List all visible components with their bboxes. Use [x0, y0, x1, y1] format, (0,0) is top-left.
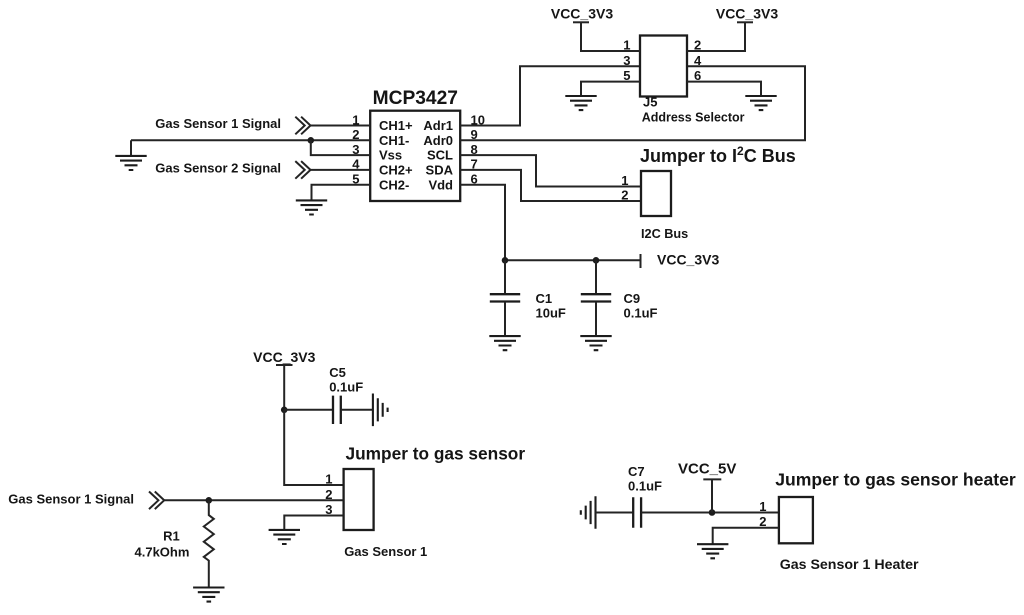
- svg-text:3: 3: [623, 53, 630, 68]
- svg-text:CH1-: CH1-: [379, 133, 409, 148]
- svg-text:VCC_3V3: VCC_3V3: [551, 6, 613, 22]
- pin number 2 of I2C Bus: [621, 187, 628, 202]
- pin number 7: [471, 157, 478, 172]
- svg-text:0.1uF: 0.1uF: [329, 380, 363, 395]
- svg-text:R1: R1: [163, 529, 180, 544]
- wire pin8 SCL to I2C pin1: [460, 155, 641, 186]
- junction on CH1-: [308, 137, 315, 144]
- resistor R1: [204, 500, 214, 587]
- wire C7 to heater pin1: [641, 512, 779, 514]
- reference label C5: [329, 365, 346, 380]
- svg-text:1: 1: [621, 173, 628, 188]
- wire C5 to ground: [341, 409, 373, 411]
- wire pin7 SDA to I2C pin2: [460, 170, 641, 201]
- capacitor C9: [581, 260, 611, 336]
- value label 0.1uF: [624, 306, 658, 321]
- value label Gas Sensor 1: [344, 544, 427, 559]
- svg-text:4: 4: [694, 53, 702, 68]
- pin number 8: [471, 142, 478, 157]
- svg-text:Vss: Vss: [379, 148, 402, 163]
- wire ground to C7: [596, 512, 634, 514]
- net label VCC_3V3 rail: [657, 252, 719, 268]
- svg-text:Address Selector: Address Selector: [642, 110, 745, 124]
- pin number 9: [471, 127, 478, 142]
- junction at C9: [593, 257, 600, 264]
- wire CH1- to ground: [130, 140, 132, 156]
- wire VCC stem to junction: [283, 365, 285, 410]
- wire VCC junction down to Gas Sensor 1 pin1: [284, 410, 343, 485]
- pin number 4: [352, 157, 360, 172]
- wire pin6 Vdd down to decoupling rail: [460, 185, 505, 261]
- pin number 1: [352, 112, 359, 127]
- svg-text:CH2-: CH2-: [379, 177, 409, 192]
- junction at R1: [206, 497, 213, 504]
- svg-text:SCL: SCL: [427, 148, 453, 163]
- pin number 1 of I2C Bus: [621, 173, 628, 188]
- svg-text:Vdd: Vdd: [428, 177, 453, 192]
- pin label CH1-: [379, 133, 409, 148]
- pin label SCL: [427, 148, 453, 163]
- pin number 2: [352, 127, 359, 142]
- capacitor C7: [633, 497, 641, 527]
- pin number 3 of Gas Sensor 1: [325, 502, 332, 517]
- wire pin9 Adr0 to J5 pin4: [460, 66, 805, 140]
- annotation Jumper to gas sensor heater: [775, 469, 1016, 489]
- node Gas Sensor 1 Signal label: [155, 116, 281, 131]
- wire pin4 CH2+: [310, 169, 371, 171]
- svg-text:1: 1: [759, 499, 766, 514]
- svg-text:Gas Sensor 1 Signal: Gas Sensor 1 Signal: [155, 116, 281, 131]
- value label 0.1uF C5: [329, 380, 363, 395]
- pin label Vdd: [428, 177, 453, 192]
- node Gas Sensor 2 Signal label: [155, 161, 281, 176]
- svg-text:10uF: 10uF: [536, 306, 566, 321]
- junction at C1: [502, 257, 509, 264]
- value label Address Selector: [642, 110, 745, 124]
- reference label R1: [163, 529, 180, 544]
- wire junction to C5: [284, 409, 333, 411]
- connector J5 body: [640, 36, 687, 97]
- svg-text:4.7kOhm: 4.7kOhm: [135, 544, 190, 559]
- svg-text:0.1uF: 0.1uF: [624, 306, 658, 321]
- ground at CH1-: [115, 156, 146, 170]
- annotation Jumper to gas sensor: [346, 444, 526, 464]
- pin label CH2-: [379, 177, 409, 192]
- junction at VCC_5V tap: [709, 509, 716, 516]
- wire heater pin2 to ground: [713, 528, 779, 545]
- pin label Adr0: [423, 133, 453, 148]
- wire J5 pin5 to ground: [581, 82, 640, 96]
- svg-text:Adr0: Adr0: [423, 133, 453, 148]
- value label I2C Bus: [641, 227, 688, 241]
- reference label C1: [536, 291, 553, 306]
- svg-text:C9: C9: [624, 291, 641, 306]
- value label Gas Sensor 1 Heater: [780, 557, 919, 573]
- pin label CH1+: [379, 118, 413, 133]
- pin number 1 of J5: [623, 38, 630, 53]
- wire junction to Vss: [311, 140, 370, 155]
- svg-text:C1: C1: [536, 291, 553, 306]
- svg-text:0.1uF: 0.1uF: [628, 479, 662, 494]
- wire pin1 CH1+: [310, 125, 371, 127]
- wire pin5 CH2- to ground: [312, 185, 371, 201]
- net label VCC_3V3 left: [551, 6, 613, 22]
- svg-text:VCC_3V3: VCC_3V3: [657, 252, 719, 268]
- capacitor C1: [490, 260, 520, 336]
- power VCC_3V3 bar bottom: [276, 364, 293, 366]
- ground at Gas Sensor 1 pin3: [269, 530, 300, 544]
- reference label C9: [624, 291, 641, 306]
- value label MCP3427: [373, 88, 458, 109]
- wire pin2 CH1-: [131, 139, 370, 141]
- power VCC_5V bar: [703, 478, 721, 480]
- wire Gas Sensor 1 pin3 to ground: [284, 516, 343, 530]
- wire J5 pin2 to VCC: [687, 22, 745, 51]
- node Gas Sensor 1 Signal bottom label: [8, 492, 134, 507]
- ground at CH2-: [296, 200, 327, 214]
- port chevron Gas Sensor 1 Signal bottom: [149, 492, 164, 510]
- net label VCC_5V: [678, 461, 736, 478]
- svg-text:MCP3427: MCP3427: [373, 88, 458, 109]
- port chevron Gas Sensor 1 Signal: [295, 117, 310, 135]
- power VCC_3V3 terminal bar: [640, 254, 642, 268]
- svg-text:J5: J5: [643, 95, 657, 110]
- connector Gas Sensor 1 Heater body: [779, 497, 813, 543]
- reference label J5: [643, 95, 657, 110]
- net label VCC_3V3 right: [716, 6, 778, 22]
- pin label Adr1: [423, 118, 453, 133]
- pin number 2 of J5: [694, 38, 701, 53]
- pin number 5 of J5: [623, 68, 630, 83]
- svg-text:Gas Sensor 1: Gas Sensor 1: [344, 544, 427, 559]
- pin number 1 of heater: [759, 499, 766, 514]
- pin number 6 of J5: [694, 68, 701, 83]
- pin number 5: [352, 172, 359, 187]
- svg-text:VCC_3V3: VCC_3V3: [253, 349, 315, 365]
- ground left-pointing at C7: [581, 496, 596, 529]
- power VCC_3V3 bar left: [573, 21, 589, 23]
- pin label SDA: [426, 163, 454, 178]
- pin number 2 of heater: [759, 514, 766, 529]
- svg-text:Adr1: Adr1: [423, 118, 453, 133]
- ground at R1: [193, 588, 224, 602]
- value label 0.1uF C7: [628, 479, 662, 494]
- wire pin10 Adr1 to J5 pin3: [460, 66, 640, 125]
- svg-text:VCC_5V: VCC_5V: [678, 461, 736, 478]
- svg-text:SDA: SDA: [426, 163, 454, 178]
- connector Gas Sensor 1 body: [344, 469, 374, 530]
- svg-text:CH2+: CH2+: [379, 163, 413, 178]
- pin number 3: [352, 142, 359, 157]
- svg-text:Gas Sensor 1 Heater: Gas Sensor 1 Heater: [780, 557, 919, 573]
- pin number 2 of Gas Sensor 1: [325, 487, 332, 502]
- reference label C7: [628, 464, 645, 479]
- ground at C9: [580, 336, 611, 350]
- pin number 4 of J5: [694, 53, 702, 68]
- ground right-pointing at C5: [373, 394, 388, 427]
- wire signal to Gas Sensor 1 pin2: [164, 499, 343, 501]
- svg-text:C5: C5: [329, 365, 346, 380]
- value label 10uF: [536, 306, 566, 321]
- ground at J5 pin6: [745, 96, 776, 110]
- pin number 1 of Gas Sensor 1: [325, 472, 332, 487]
- capacitor C5: [333, 396, 341, 424]
- ground at J5 pin5: [565, 96, 596, 110]
- svg-text:Jumper to I2C Bus: Jumper to I2C Bus: [640, 144, 796, 166]
- wire VCC_5V stem: [711, 479, 713, 512]
- svg-text:Gas Sensor 2 Signal: Gas Sensor 2 Signal: [155, 161, 281, 176]
- net label VCC_3V3 bottom: [253, 349, 315, 365]
- svg-text:I2C Bus: I2C Bus: [641, 227, 688, 241]
- wire decoupling rail: [505, 259, 641, 261]
- pin label CH2+: [379, 163, 413, 178]
- wire J5 pin1 to VCC: [581, 22, 640, 51]
- svg-text:C7: C7: [628, 464, 645, 479]
- annotation Jumper to I2C Bus: [640, 144, 796, 166]
- svg-text:2: 2: [621, 187, 628, 202]
- port chevron Gas Sensor 2 Signal: [295, 161, 310, 179]
- pin number 10: [471, 112, 485, 127]
- svg-text:VCC_3V3: VCC_3V3: [716, 6, 778, 22]
- ground at heater pin2: [697, 544, 728, 558]
- op-amp U1 : MCP3427 ADC IC body: [370, 111, 460, 201]
- pin label Vss: [379, 148, 402, 163]
- svg-text:Jumper to gas sensor heater: Jumper to gas sensor heater: [775, 469, 1016, 489]
- svg-text:1: 1: [325, 472, 332, 487]
- svg-text:CH1+: CH1+: [379, 118, 413, 133]
- pin number 6: [471, 172, 478, 187]
- power VCC_3V3 bar right: [737, 21, 753, 23]
- connector I2C Bus body: [641, 171, 671, 216]
- wire J5 pin6 to ground: [687, 82, 761, 96]
- value label 4.7kOhm: [135, 544, 190, 559]
- svg-text:Gas Sensor 1 Signal: Gas Sensor 1 Signal: [8, 492, 134, 507]
- svg-text:Jumper to gas sensor: Jumper to gas sensor: [346, 444, 526, 464]
- pin number 3 of J5: [623, 53, 630, 68]
- ground at C1: [489, 336, 520, 350]
- junction at C5 tap: [281, 407, 288, 414]
